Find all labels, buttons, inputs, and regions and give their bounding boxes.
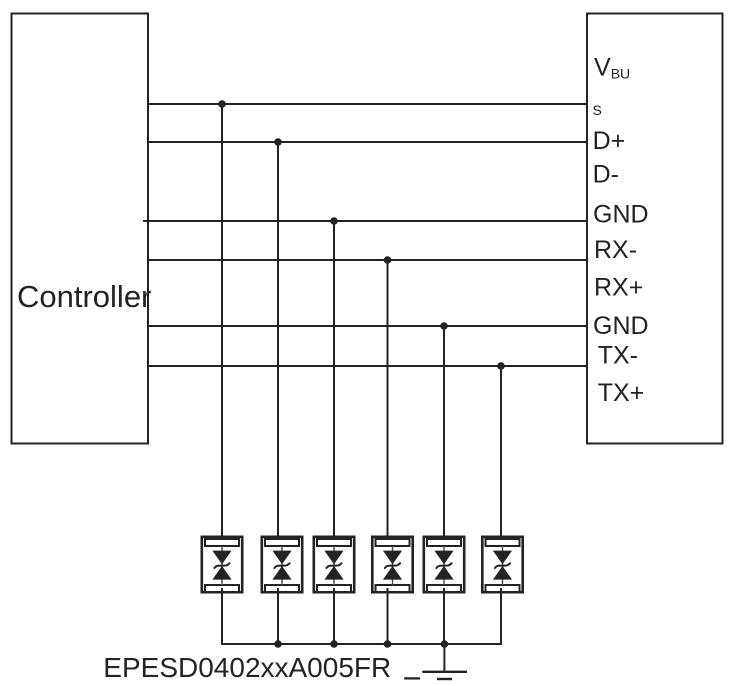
controller box U1: [12, 14, 149, 444]
junction bus/D5: [441, 640, 449, 648]
wire TX- to D6: [500, 366, 502, 540]
wire GND2 net: [148, 325, 587, 327]
junction bus/D4: [384, 640, 392, 648]
svg-text:D+: D+: [593, 127, 626, 155]
ESD suppressor D6: [482, 537, 522, 592]
ground bus wire: [221, 643, 502, 645]
pin label D-: [593, 161, 619, 189]
svg-text:EPESD0402xxA005FR: EPESD0402xxA005FR: [103, 652, 391, 683]
ground: [422, 644, 467, 679]
controller label: [17, 279, 151, 314]
pin label D+: [593, 127, 626, 155]
junction bus/D3: [330, 640, 338, 648]
junction TX-/D6: [497, 362, 505, 370]
svg-text:GND: GND: [593, 201, 649, 229]
wire GND net: [143, 220, 587, 222]
ESD suppressor D5: [424, 537, 464, 592]
ESD suppressor D3: [314, 537, 354, 592]
pin label VBUS: [593, 54, 631, 118]
pin label GND (pin 4): [593, 201, 649, 229]
pin label TX+: [598, 379, 645, 407]
connector box J1: [587, 14, 723, 444]
part number label EPESD0402xxA005FR: [103, 652, 391, 683]
svg-text:GND: GND: [593, 312, 649, 340]
pin label RX-: [594, 236, 637, 264]
svg-text:RX-: RX-: [594, 236, 637, 264]
wire D6 to ground bus: [500, 588, 502, 645]
wire RX- net: [148, 259, 587, 261]
junction VBUS/D1: [218, 100, 226, 108]
svg-text:RX+: RX+: [594, 274, 643, 302]
pin label RX+: [594, 274, 643, 302]
wire VBUS net: [148, 103, 587, 105]
svg-text:S: S: [593, 102, 602, 118]
junction RX-/D4: [384, 256, 392, 264]
ESD suppressor D2: [262, 537, 302, 592]
wire TX- net: [148, 365, 587, 367]
wire D+ to D2: [277, 142, 279, 540]
wire D2 to ground bus: [277, 588, 279, 645]
junction D+/D2: [274, 138, 282, 146]
wire D5 to ground bus: [443, 588, 445, 645]
svg-text:TX+: TX+: [598, 379, 645, 407]
pin label GND (pin 7): [593, 312, 649, 340]
svg-text:TX-: TX-: [598, 341, 638, 369]
svg-text:D-: D-: [593, 161, 619, 189]
wire D+ net: [148, 141, 587, 143]
wire RX- to D4: [387, 260, 389, 540]
wire D4 to ground bus: [387, 588, 389, 645]
pin label TX-: [598, 341, 638, 369]
ESD suppressor D1: [202, 537, 242, 592]
wire D1 to ground bus: [221, 588, 223, 645]
underscore mark: [404, 677, 420, 679]
junction GND/D3: [330, 217, 338, 225]
junction bus/D2: [274, 640, 282, 648]
wire GND to D3: [333, 221, 335, 540]
svg-text:Controller: Controller: [17, 279, 151, 314]
wire GND2 to D5: [443, 326, 445, 540]
wire VBUS to D1: [221, 104, 223, 540]
junction GND2/D5: [440, 322, 448, 330]
ESD suppressor D4: [372, 537, 412, 592]
wire D3 to ground bus: [333, 588, 335, 645]
